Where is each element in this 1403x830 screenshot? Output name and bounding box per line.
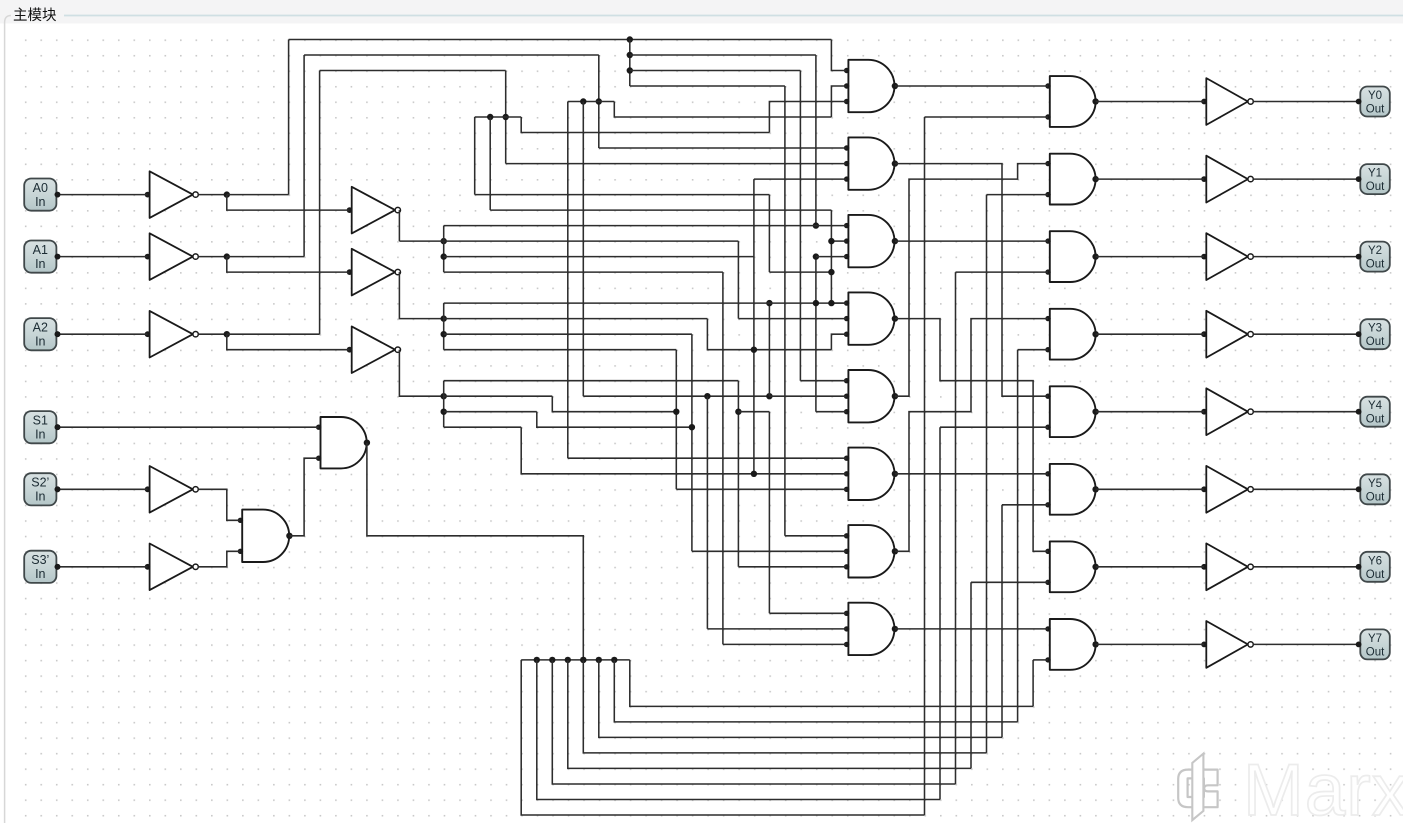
svg-text:Out: Out (1366, 646, 1385, 658)
node A0 pin (55, 192, 61, 198)
wire A1 k17 rail (444, 349, 677, 351)
wire k11 rail (444, 256, 754, 258)
node D7 input (1045, 580, 1050, 585)
and-gate T5 (848, 370, 894, 422)
node V2 input (1201, 176, 1207, 182)
node T1 input (844, 99, 849, 104)
wire A1 k14 rail (444, 302, 847, 304)
node m-10 k14 tap (766, 300, 772, 306)
wire T7.in2 rail (692, 550, 847, 552)
wire enable loop 3 (568, 660, 971, 769)
wire A2 k20 rail (444, 395, 553, 397)
node enable feed tap (580, 657, 586, 663)
wire enable loop 1 (537, 660, 940, 800)
node T1 input (844, 68, 849, 73)
node /A2 junction (224, 331, 230, 337)
node T8 input (844, 626, 849, 631)
node k14 tap m-7 (813, 300, 819, 306)
wire A0 jog to N2 (227, 195, 350, 211)
node N1_S2' input (145, 486, 151, 492)
wire /A1 drop m-21 (598, 55, 600, 148)
wire /A2 drop m-6b (830, 210, 832, 303)
wire A1 drop m-15 (691, 334, 693, 551)
wire /A1 to riser (227, 256, 304, 258)
svg-text:Marx: Marx (1243, 750, 1403, 830)
wire A0 k12 rail (444, 271, 723, 273)
node T8 output (892, 626, 898, 632)
wire A1 drop m-16 (675, 350, 677, 490)
node N2_A2 input (347, 347, 353, 353)
and-gate T8 (848, 603, 894, 655)
wire /A2 drop m-27 (505, 71, 507, 164)
node /A1 k1 tap b (580, 98, 586, 104)
svg-text:In: In (35, 567, 45, 581)
wire /A0 to riser (227, 194, 289, 196)
and-gate T6 (848, 448, 894, 500)
node N1_A0 input (145, 192, 151, 198)
node D4 input (1045, 347, 1050, 352)
and-gate D2 (1050, 154, 1096, 205)
node /A1 junction (224, 253, 230, 259)
svg-text:Y0: Y0 (1368, 90, 1382, 102)
svg-text:In: In (35, 335, 45, 349)
and-gate D3 (1050, 231, 1096, 282)
wire enable to D rail m1 (940, 426, 1048, 428)
inverter N1_S2' (150, 466, 193, 513)
node D8 input (1045, 657, 1050, 662)
svg-text:Out: Out (1366, 104, 1385, 116)
wire T1.in2 feed (831, 86, 846, 117)
node S2' pin (55, 486, 61, 492)
node S1 pin (55, 424, 61, 430)
wire /A2 riser (319, 71, 321, 335)
wire /A1 drop m-14b (706, 396, 708, 629)
wire T5 to D2 (895, 164, 1048, 397)
wire enable loop 4 (583, 660, 986, 753)
wire A1 k15 rail (444, 318, 708, 320)
node U1 input a (238, 518, 243, 523)
node D4 output (1092, 331, 1098, 337)
wire /A2 junction lead (198, 333, 227, 335)
node T4 output (892, 315, 898, 321)
wire enable to D rail m2 (956, 271, 1049, 273)
wire A2 k22 rail (444, 426, 522, 428)
node A2 fan feed (441, 393, 447, 399)
wire enable riser m2 (955, 272, 957, 784)
wire T8.in2 rail (707, 628, 846, 630)
svg-text:Y6: Y6 (1368, 555, 1382, 567)
wire /A2 k2 rail (475, 116, 522, 118)
wire T8.in3 rail (723, 643, 847, 645)
and-gate T2 (848, 137, 894, 189)
wire /A1 jog m-20 (614, 102, 831, 118)
input pin S2' (24, 473, 60, 505)
svg-text:Out: Out (1366, 259, 1385, 271)
wire D1 to V1 (1096, 101, 1205, 103)
wire T7 to D4 (895, 319, 1048, 552)
wire V6 to Y5 (1253, 488, 1358, 490)
node D8 output (1092, 641, 1098, 647)
wire T2.in3 rail (754, 178, 847, 180)
and-gate D7 (1050, 541, 1096, 592)
node A1 fan k16 (441, 331, 447, 337)
inverter N2_A1 (352, 249, 395, 296)
wire T1.in3 feed (769, 102, 846, 133)
node bus tap 3 (565, 657, 571, 663)
inverter V2 (1206, 156, 1248, 203)
wire T5.in2 stub (769, 395, 846, 397)
node D5 output (1092, 409, 1098, 415)
node D2 output (1092, 176, 1098, 182)
wire A0 drop m-13 (722, 272, 724, 644)
wire V4 to Y3 (1253, 333, 1358, 335)
node k17 tap m-11 (751, 347, 757, 353)
wire A2 jog m-24 (552, 396, 676, 412)
wire /A0 fan riser (629, 40, 631, 87)
svg-text:Out: Out (1366, 181, 1385, 193)
wire T3 to D3 (895, 240, 1048, 242)
wire /A1 trunk H2 (304, 54, 599, 56)
window top band (0, 0, 1403, 24)
wire enable loop 2 (552, 660, 955, 784)
node D5 input (1045, 394, 1050, 399)
wire T4 to D7 (895, 319, 1048, 552)
wire enable riser m1 (939, 427, 941, 799)
inverter V8 (1206, 621, 1248, 668)
output pin Y0 (1356, 87, 1390, 117)
node T1 input (844, 83, 849, 88)
wire A1 fan riser (443, 303, 445, 350)
wire A0 N2 out drop (398, 210, 400, 241)
node V7 input (1201, 564, 1207, 570)
node U2 input b (316, 456, 321, 461)
node D3 output (1092, 253, 1098, 259)
node T7 output (892, 548, 898, 554)
wire T3.in3 stub (816, 256, 847, 258)
wire D4 to V4 (1096, 333, 1205, 335)
svg-text:In: In (35, 257, 45, 271)
node U2 output (364, 440, 370, 446)
input pin S1 (24, 411, 60, 443)
node m-6 k12 tap (828, 269, 834, 275)
node /A2 k2 tap (503, 114, 509, 120)
output pin Y1 (1356, 164, 1390, 194)
node T6 input (844, 487, 849, 492)
wire enable riser m4 (986, 195, 988, 753)
wire /A0 junction lead (198, 194, 227, 196)
svg-text:Y2: Y2 (1368, 245, 1382, 257)
node D8 input (1045, 626, 1050, 631)
wire D5 to V5 (1096, 411, 1205, 413)
wire D3 to V3 (1096, 256, 1205, 258)
svg-text:S2’: S2’ (31, 476, 49, 490)
wire enable to D rail m3 (971, 581, 1048, 583)
node V8 input (1201, 642, 1207, 648)
node A2 k21 join (673, 409, 679, 415)
input pin A0 (24, 179, 60, 211)
wire A2 N2 out drop (399, 350, 443, 397)
output pin Y3 (1356, 319, 1390, 349)
inverter N1_S3' (150, 544, 193, 591)
wire V7 to Y6 (1253, 566, 1358, 568)
wire A0 pin to inverter (58, 194, 148, 196)
svg-text:In: In (35, 490, 45, 504)
node U1 input b (238, 549, 243, 554)
node A1 pin (55, 254, 61, 260)
wire A2 drop m-10c (768, 412, 770, 614)
node D7 output (1092, 564, 1098, 570)
wire /A2 drop m-29 (474, 117, 476, 195)
svg-text:In: In (35, 195, 45, 209)
node D4 input (1045, 316, 1050, 321)
inverter V3 (1206, 233, 1248, 280)
wire T1 to D1 (895, 85, 1048, 87)
svg-text:Y1: Y1 (1368, 168, 1382, 180)
node D2 input (1045, 192, 1050, 197)
wire enable bus (521, 659, 630, 661)
wire S2 to U1 (198, 489, 240, 520)
node A1 fan feed (441, 315, 447, 321)
inverter N2_A0 (352, 187, 395, 234)
node T5 input (844, 409, 849, 414)
wire A1 N2 out drop (399, 272, 443, 319)
node k20 tap m-10 (766, 393, 772, 399)
wire A2 k21 rail (444, 411, 537, 413)
wire U1 to U2 (289, 458, 318, 536)
wire S3 to U1 (198, 551, 240, 567)
output pin Y4 (1356, 397, 1390, 427)
svg-text:Y5: Y5 (1368, 478, 1382, 490)
node T7 input (844, 564, 849, 569)
node m-12 k21 tap (735, 409, 741, 415)
node A0 fan k11 (441, 253, 447, 259)
wire /A2 drop m-28 (489, 117, 491, 210)
node /A2 k2 tap b (487, 114, 493, 120)
svg-text:Out: Out (1366, 414, 1385, 426)
wire S2' pin to inverter (58, 488, 148, 490)
wire V1 to Y0 (1253, 101, 1358, 103)
output pin Y7 (1356, 629, 1390, 659)
output pin Y6 (1356, 552, 1390, 582)
node T6 output (892, 471, 898, 477)
svg-text:S1: S1 (33, 414, 48, 428)
watermark logo cent (1178, 754, 1217, 821)
inverter N1_A1 (150, 233, 193, 280)
node bus tap 2 (549, 657, 555, 663)
wire A0 drop m-12a (737, 241, 739, 319)
and-gate U1 (S2&S3) (242, 510, 289, 562)
node T5 input (844, 378, 849, 383)
node T2 input (844, 176, 849, 181)
node bus tap 6 (611, 657, 617, 663)
wire A2 fan riser (443, 381, 445, 428)
node m-6 k10 tap (828, 238, 834, 244)
and-gate D5 (1050, 386, 1096, 437)
node T1 output (892, 83, 898, 89)
wire D7 to V7 (1096, 566, 1205, 568)
node T6 input (844, 471, 849, 476)
node T3 input (844, 223, 849, 228)
node T8 input (844, 642, 849, 647)
input pin S3' (24, 551, 60, 583)
wire T5.in3 stub (816, 411, 847, 413)
inverter V4 (1206, 311, 1248, 358)
node /A0 junction (224, 191, 230, 197)
wire enable riser m7 (1032, 660, 1034, 707)
svg-text:Out: Out (1366, 569, 1385, 581)
node V5 input (1201, 409, 1207, 415)
wire A1 jog m-14 (707, 319, 831, 350)
wire enable loop 0 (521, 660, 924, 815)
wire V5 to Y4 (1253, 411, 1358, 413)
node N2_A0 input (347, 207, 353, 213)
wire T7.in3 rail (738, 566, 846, 568)
input pin A1 (24, 241, 60, 273)
wire /A1 riser (303, 55, 305, 257)
node N2_A1 input (347, 269, 353, 275)
wire /A0 fan rail b (630, 70, 801, 72)
wire enable to D rail m7 (1033, 659, 1048, 661)
module group-box border (64, 15, 1403, 17)
node D3 input (1045, 269, 1050, 274)
node D6 input (1045, 471, 1050, 476)
wire U2 out feed (367, 443, 583, 660)
wire T1.in1 feed (831, 40, 846, 71)
wire T3.in2 stub (831, 240, 846, 242)
inverter V6 (1206, 466, 1248, 513)
node A2 k21 tap (441, 409, 447, 415)
and-gate T1 (848, 60, 894, 112)
wire A2 pin to inverter (58, 333, 148, 335)
wire T2 to D5 (895, 164, 1048, 397)
node bus tap 1 (534, 657, 540, 663)
node D1 output (1092, 98, 1098, 104)
and-gate T3 (848, 215, 894, 267)
wire T4.in1 stub (831, 302, 846, 304)
wire T6.in3 rail (676, 488, 846, 490)
node T6 input (844, 456, 849, 461)
node T5 output (892, 393, 898, 399)
node fan tap k-2 (627, 52, 633, 58)
node A2 pin (55, 331, 61, 337)
wire /A2 trunk H3 (320, 70, 506, 72)
node T8 input (844, 611, 849, 616)
wire V2 to Y1 (1253, 178, 1358, 180)
and-gate T4 (848, 292, 894, 344)
and-gate U2 (S1&U1) (321, 417, 367, 468)
and-gate T7 (848, 525, 894, 577)
wire T2.in2 rail (506, 163, 847, 165)
wire enable loop 5 (599, 660, 1002, 738)
wire D6 to V6 (1096, 488, 1205, 490)
node T3 output (892, 238, 898, 244)
wire /A1 drop m-22 (582, 102, 584, 397)
inverter V1 (1206, 78, 1248, 125)
node bus tap 5 (596, 657, 602, 663)
wire S1 pin to U2 (58, 426, 319, 428)
node T7 input (844, 533, 849, 538)
wire enable loop 6 (614, 660, 1017, 722)
wire /A0 trunk H1 (289, 39, 832, 41)
wire T4.in3 feed (831, 334, 846, 350)
svg-text:Out: Out (1366, 336, 1385, 348)
and-gate D4 (1050, 309, 1096, 360)
wire A2 k19 rail (444, 380, 739, 382)
wire A1 pin to inverter (58, 256, 148, 258)
wire enable to D rail m0 (925, 116, 1049, 118)
inverter N1_A0 (150, 171, 193, 218)
wire /A0 fan rail c (630, 85, 785, 87)
wire V3 to Y2 (1253, 256, 1358, 258)
node k14 tap m-6 (828, 300, 834, 306)
wire A1 jog to N2 (227, 257, 350, 273)
wire A0 k10 rail (399, 240, 738, 242)
wire A0 fan riser (443, 226, 445, 273)
wire /A2 to riser (227, 333, 320, 335)
wire T3.in1 rail (444, 225, 847, 227)
wire T2.in1 rail (599, 147, 847, 149)
svg-text:Out: Out (1366, 491, 1385, 503)
node D5 input (1045, 425, 1050, 430)
node D1 input (1045, 83, 1050, 88)
wire enable to D rail m5 (1002, 504, 1048, 506)
node T3 input (844, 238, 849, 243)
wire T8 to D8 (895, 628, 1048, 630)
inverter N1_A2 (150, 311, 193, 358)
inverter V7 (1206, 543, 1248, 590)
node bus tap 4 (580, 657, 586, 663)
wire T5.in1 stub (800, 380, 846, 382)
node V6 input (1201, 486, 1207, 492)
wire A2 drop m-12b (737, 381, 739, 567)
svg-text:Y7: Y7 (1368, 633, 1382, 645)
wire k21 link (738, 411, 769, 413)
svg-text:A2: A2 (33, 321, 48, 335)
node D6 input (1045, 502, 1050, 507)
wire V8 to Y7 (1253, 643, 1358, 645)
wire /A2 k8 rail (490, 209, 831, 211)
wire /A0 fan rail a (630, 54, 816, 56)
wire T8.in1 rail (769, 612, 846, 614)
wire m-11 drop (753, 179, 755, 474)
node m-7 k11 tap (813, 253, 819, 259)
node U1 output (286, 533, 292, 539)
node T4 input (844, 316, 849, 321)
node N1_S3' input (145, 564, 151, 570)
wire /A0 drop m-7 (815, 55, 817, 226)
output pin Y2 (1356, 242, 1390, 272)
wire enable riser m6 (1017, 350, 1019, 722)
wire enable riser m3 (970, 582, 972, 768)
node N1_A1 input (145, 254, 151, 260)
wire /A2 k7 rail (475, 194, 770, 196)
node T2 input (844, 161, 849, 166)
input pin A2 (24, 318, 60, 350)
wire m-10 lower drop (768, 303, 770, 396)
wire /A1 k1 rail (568, 101, 615, 103)
node A2 k22 join (689, 424, 695, 430)
svg-text:Y3: Y3 (1368, 323, 1382, 335)
svg-text:A1: A1 (33, 243, 48, 257)
svg-text:Y4: Y4 (1368, 400, 1383, 412)
wire enable riser m5 (1001, 505, 1003, 738)
node T7 input (844, 549, 849, 554)
node V4 input (1201, 331, 1207, 337)
node fan tap k-1 (627, 67, 633, 73)
node N1_A2 input (145, 331, 151, 337)
node D7 input (1045, 549, 1050, 554)
wire enable loop 7 (630, 660, 1033, 707)
